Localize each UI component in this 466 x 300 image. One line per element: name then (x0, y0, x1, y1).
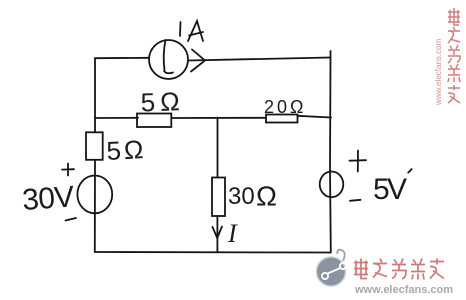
current source internal stroke (164, 40, 173, 73)
wire top-right horizontal segment (188, 58, 330, 61)
label 1A (179, 22, 182, 36)
tick mark after 5V (408, 169, 412, 173)
minus sign V1 (66, 218, 77, 221)
svg-text:20Ω: 20Ω (264, 97, 306, 117)
arrow I current direction (213, 227, 223, 239)
wire top-left horizontal segment (95, 57, 149, 59)
svg-text:5V: 5V (373, 173, 407, 206)
resistor R3 horizontal box 20ohm (266, 115, 298, 123)
minus sign V2 (350, 200, 361, 201)
watermark logo circle bottom right (317, 250, 347, 286)
resistor R4 vertical box 30ohm (212, 178, 225, 217)
wire middle vertical upper (217, 118, 219, 178)
svg-text:30: 30 (228, 183, 255, 210)
svg-text:Ω: Ω (256, 181, 277, 212)
wire right vertical (329, 58, 332, 253)
svg-text:I: I (227, 219, 238, 248)
watermark vertical text top right (448, 8, 460, 103)
voltage source V2 circle 5V (320, 172, 344, 198)
wire left vertical upper (94, 58, 96, 132)
watermark text dianzifashaoyou bottom (354, 259, 444, 280)
voltage source V1 circle 30V (77, 176, 112, 214)
wire middle horizontal right (298, 116, 332, 118)
arrow current direction (191, 50, 205, 72)
svg-text:www.elecfans.com: www.elecfans.com (434, 38, 443, 106)
svg-text:www.elecfans.com: www.elecfans.com (354, 284, 453, 296)
resistor R2 vertical box (86, 132, 103, 160)
wire left vertical lower through source (94, 160, 96, 252)
wire bottom horizontal (95, 251, 331, 254)
svg-text:5Ω: 5Ω (106, 134, 147, 166)
plus sign V2 (350, 151, 367, 172)
wire middle vertical lower (216, 216, 218, 252)
wire middle horizontal center (172, 117, 266, 119)
svg-text:5Ω: 5Ω (140, 86, 185, 118)
wire middle horizontal left (95, 117, 138, 119)
current source U1 circle (149, 40, 188, 79)
plus sign V1 (62, 164, 74, 176)
resistor R1 horizontal box 5ohm (137, 114, 171, 128)
svg-text:30V: 30V (21, 180, 75, 217)
corner overshoot top-right (330, 51, 332, 58)
